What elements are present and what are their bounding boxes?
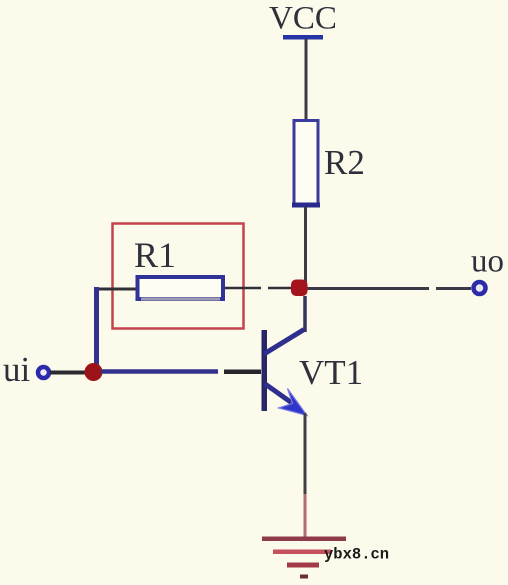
svg-text:R2: R2 bbox=[324, 143, 365, 182]
svg-text:ybx8.cn: ybx8.cn bbox=[324, 546, 389, 564]
svg-text:R1: R1 bbox=[134, 235, 176, 275]
svg-text:ui: ui bbox=[3, 350, 31, 389]
svg-text:VT1: VT1 bbox=[299, 353, 363, 392]
svg-text:VCC: VCC bbox=[269, 1, 337, 37]
svg-text:uo: uo bbox=[471, 244, 504, 280]
